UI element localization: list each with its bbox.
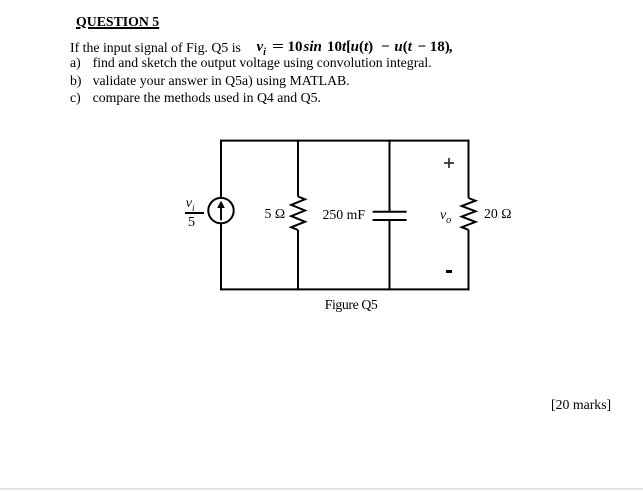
wire right bottom segment xyxy=(468,230,470,291)
resistor 20-ohm zigzag xyxy=(462,198,476,230)
problem statement line xyxy=(70,41,241,55)
polarity plus sign xyxy=(441,155,457,171)
wire left top segment xyxy=(220,140,222,199)
wire top rail xyxy=(220,140,470,142)
wire bottom rail xyxy=(220,288,470,290)
label fraction v_i numerator xyxy=(186,197,195,216)
current source circle xyxy=(208,198,233,223)
wire branch 5-ohm bottom xyxy=(297,230,299,290)
caption Figure Q5 xyxy=(325,298,378,312)
label 250 mF xyxy=(323,208,366,222)
item b xyxy=(70,74,82,88)
current source arrow xyxy=(217,201,225,221)
marks note xyxy=(551,398,611,412)
label 5 ohm xyxy=(265,207,286,221)
item c xyxy=(70,91,81,105)
resistor 5-ohm zigzag xyxy=(291,197,305,231)
wire left bottom segment xyxy=(220,223,222,290)
page boundary line xyxy=(0,488,643,490)
math expression v_i = 10 sin 10t[u(t) - u(t-18), xyxy=(257,40,266,60)
wire branch 5-ohm top xyxy=(297,140,299,197)
polarity minus sign xyxy=(446,270,452,273)
item a xyxy=(70,56,81,70)
heading QUESTION 5 xyxy=(76,15,159,29)
wire branch capacitor bottom xyxy=(389,220,391,290)
capacitor plates 250 mF xyxy=(373,211,407,213)
label fraction denominator 5 xyxy=(188,216,195,230)
label fraction bar xyxy=(185,212,204,214)
label 20 ohm xyxy=(484,207,512,221)
wire right top segment xyxy=(468,140,470,198)
label v_o xyxy=(440,208,451,228)
wire branch capacitor top xyxy=(389,140,391,212)
